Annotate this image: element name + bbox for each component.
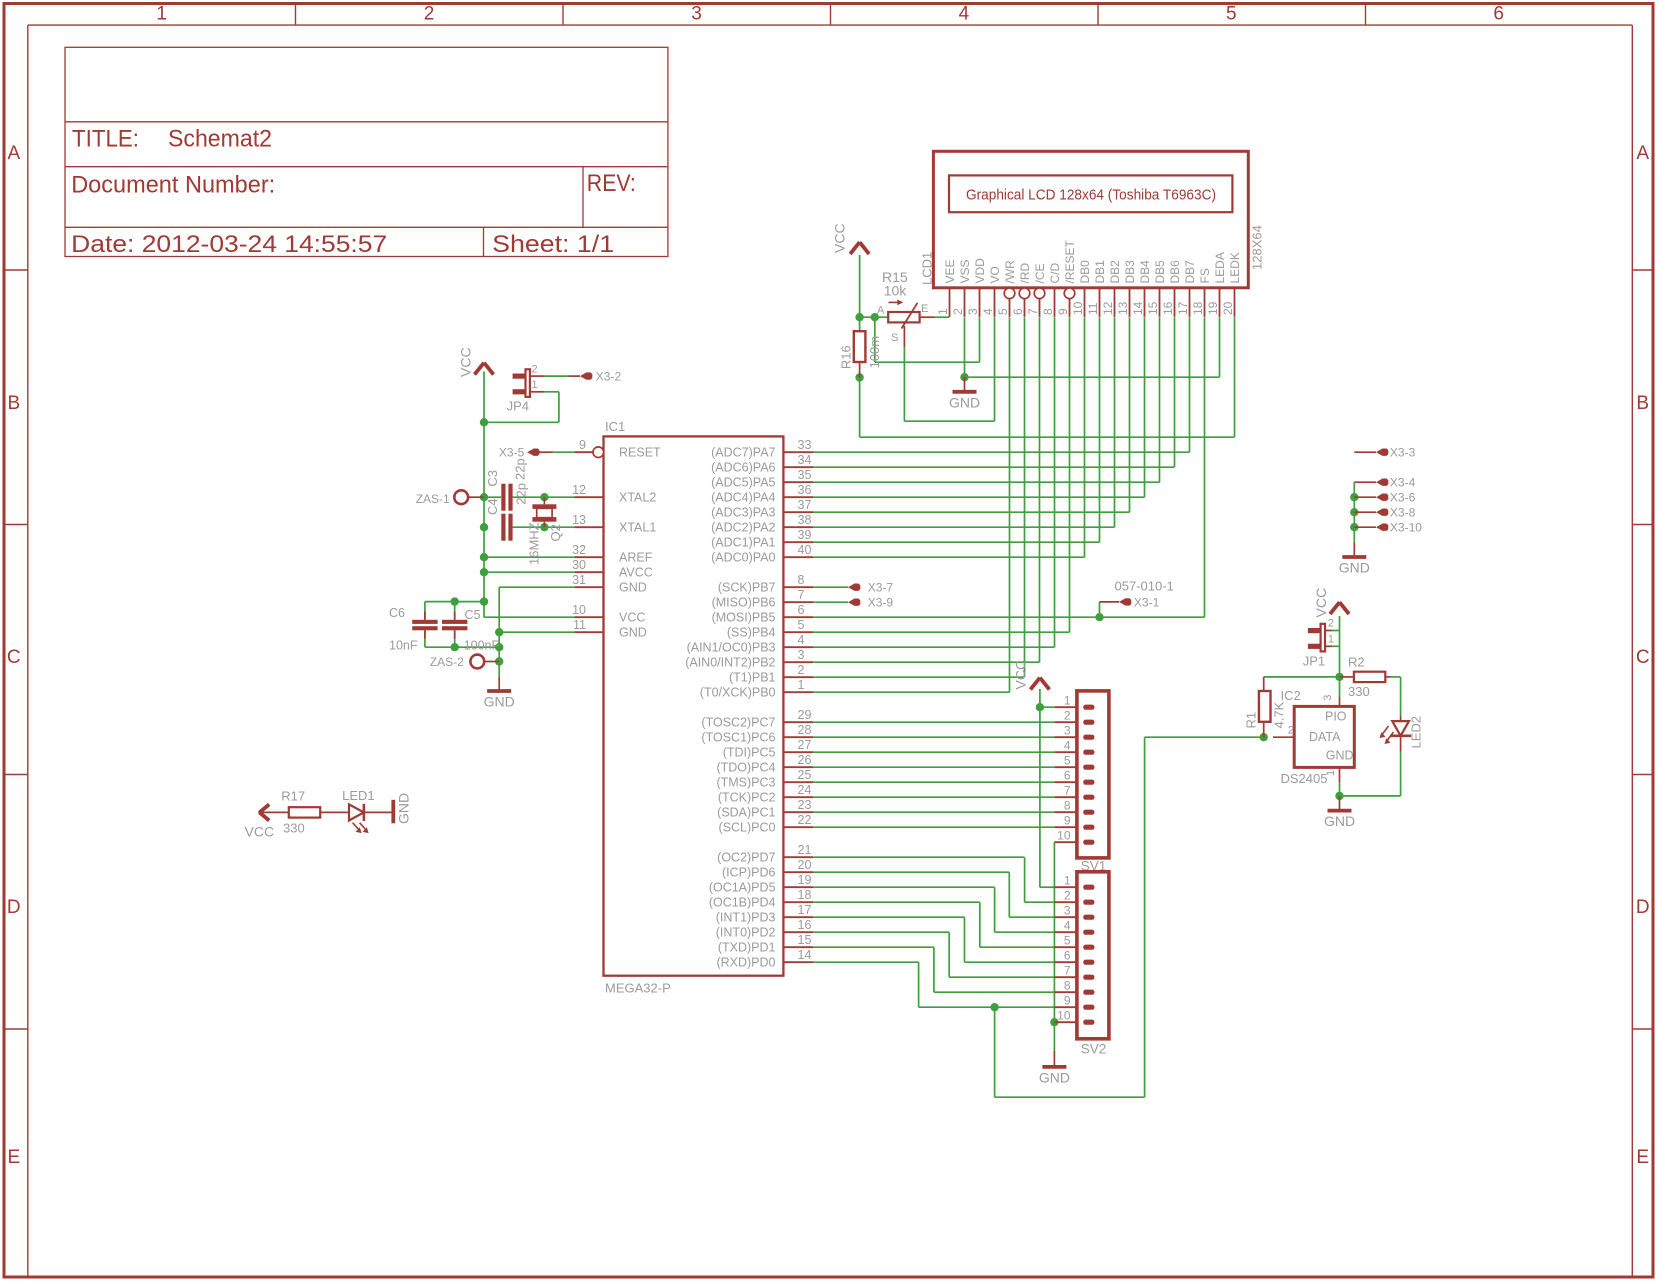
svg-text:VCC: VCC bbox=[458, 347, 474, 377]
svg-text:GND: GND bbox=[396, 793, 412, 824]
svg-text:DB6: DB6 bbox=[1168, 260, 1182, 284]
svg-text:34: 34 bbox=[798, 453, 812, 467]
svg-text:(ADC4)PA4: (ADC4)PA4 bbox=[711, 491, 775, 505]
svg-text:12: 12 bbox=[572, 483, 586, 497]
svg-text:R2: R2 bbox=[1348, 654, 1365, 669]
svg-text:FS: FS bbox=[1198, 268, 1212, 283]
svg-text:B: B bbox=[1636, 393, 1649, 414]
svg-text:GND: GND bbox=[1326, 748, 1354, 762]
svg-text:(ADC1)PA1: (ADC1)PA1 bbox=[711, 536, 775, 550]
svg-text:8: 8 bbox=[1064, 799, 1071, 813]
svg-text:C: C bbox=[1636, 647, 1650, 668]
svg-text:AREF: AREF bbox=[619, 551, 653, 565]
svg-text:14: 14 bbox=[798, 948, 812, 962]
svg-text:1: 1 bbox=[532, 379, 538, 391]
svg-text:(RXD)PD0: (RXD)PD0 bbox=[716, 956, 775, 970]
svg-text:4.7K: 4.7K bbox=[1272, 701, 1287, 728]
svg-text:GND: GND bbox=[1039, 1069, 1070, 1085]
svg-text:REV:: REV: bbox=[587, 170, 636, 197]
svg-text:11: 11 bbox=[1086, 302, 1100, 315]
svg-text:DB5: DB5 bbox=[1153, 260, 1167, 284]
svg-text:22p: 22p bbox=[514, 483, 529, 505]
svg-text:LEDA: LEDA bbox=[1213, 252, 1227, 283]
svg-text:R16: R16 bbox=[838, 345, 853, 369]
svg-text:GND: GND bbox=[949, 394, 980, 410]
svg-text:1: 1 bbox=[936, 308, 950, 315]
svg-text:36: 36 bbox=[798, 483, 812, 497]
svg-text:17: 17 bbox=[1176, 301, 1190, 315]
svg-text:JP4: JP4 bbox=[507, 398, 529, 413]
svg-text:ZAS-2: ZAS-2 bbox=[430, 655, 464, 669]
svg-text:/RD: /RD bbox=[1018, 263, 1032, 284]
svg-text:(TCK)PC2: (TCK)PC2 bbox=[718, 791, 776, 805]
svg-text:(SDA)PC1: (SDA)PC1 bbox=[717, 806, 775, 820]
svg-text:21: 21 bbox=[798, 843, 812, 857]
svg-text:7: 7 bbox=[798, 588, 805, 602]
svg-text:C4: C4 bbox=[485, 498, 500, 515]
svg-text:VCC: VCC bbox=[832, 223, 848, 253]
svg-text:TITLE:: TITLE: bbox=[72, 126, 139, 153]
svg-text:(INT0)PD2: (INT0)PD2 bbox=[716, 926, 776, 940]
svg-text:5: 5 bbox=[1064, 754, 1071, 768]
svg-text:MEGA32-P: MEGA32-P bbox=[605, 981, 671, 996]
svg-text:E: E bbox=[1636, 1147, 1649, 1168]
svg-text:2: 2 bbox=[1064, 889, 1071, 903]
svg-text:LCD1: LCD1 bbox=[920, 252, 935, 285]
svg-text:VCC: VCC bbox=[245, 824, 275, 840]
svg-text:4: 4 bbox=[1064, 739, 1071, 753]
svg-text:057-010-1: 057-010-1 bbox=[1115, 579, 1174, 594]
svg-text:Sheet: 1/1: Sheet: 1/1 bbox=[492, 231, 614, 258]
svg-text:(MOSI)PB5: (MOSI)PB5 bbox=[712, 611, 776, 625]
svg-text:3: 3 bbox=[1064, 904, 1071, 918]
svg-text:35: 35 bbox=[798, 468, 812, 482]
svg-text:20: 20 bbox=[798, 858, 812, 872]
svg-text:3: 3 bbox=[1322, 695, 1334, 701]
svg-text:S: S bbox=[891, 332, 898, 344]
svg-text:18: 18 bbox=[1191, 301, 1205, 315]
svg-text:VCC: VCC bbox=[619, 611, 645, 625]
svg-text:4: 4 bbox=[798, 633, 805, 647]
svg-text:VSS: VSS bbox=[958, 259, 972, 283]
svg-text:(ADC5)PA5: (ADC5)PA5 bbox=[711, 476, 775, 490]
svg-text:1: 1 bbox=[1064, 694, 1071, 708]
svg-text:9: 9 bbox=[1056, 308, 1070, 315]
svg-text:XTAL1: XTAL1 bbox=[619, 521, 656, 535]
svg-text:16: 16 bbox=[1161, 301, 1175, 315]
svg-text:39: 39 bbox=[798, 528, 812, 542]
svg-text:D: D bbox=[7, 897, 21, 918]
svg-text:AVCC: AVCC bbox=[619, 566, 653, 580]
svg-text:32: 32 bbox=[572, 543, 586, 557]
svg-text:(ADC7)PA7: (ADC7)PA7 bbox=[711, 446, 775, 460]
svg-text:3: 3 bbox=[966, 308, 980, 315]
svg-text:/RESET: /RESET bbox=[1063, 239, 1077, 283]
svg-text:/CE: /CE bbox=[1033, 263, 1047, 283]
svg-text:VO: VO bbox=[988, 266, 1002, 283]
svg-text:8: 8 bbox=[1041, 308, 1055, 315]
svg-text:X3-8: X3-8 bbox=[1390, 506, 1416, 520]
svg-text:9: 9 bbox=[1064, 994, 1071, 1008]
svg-text:1: 1 bbox=[156, 4, 167, 25]
svg-text:Graphical LCD 128x64 (Toshiba: Graphical LCD 128x64 (Toshiba T6963C) bbox=[966, 186, 1216, 203]
svg-text:(SCL)PC0: (SCL)PC0 bbox=[719, 821, 776, 835]
svg-text:R1: R1 bbox=[1243, 712, 1258, 729]
svg-text:(OC1B)PD4: (OC1B)PD4 bbox=[709, 896, 776, 910]
svg-text:DB2: DB2 bbox=[1108, 260, 1122, 284]
svg-text:GND: GND bbox=[1324, 813, 1355, 829]
svg-text:X3-6: X3-6 bbox=[1390, 491, 1416, 505]
svg-text:6: 6 bbox=[1064, 769, 1071, 783]
svg-text:100nF: 100nF bbox=[464, 638, 500, 652]
svg-text:(INT1)PD3: (INT1)PD3 bbox=[716, 911, 776, 925]
svg-text:Q2: Q2 bbox=[548, 524, 563, 541]
svg-text:VDD: VDD bbox=[973, 258, 987, 284]
svg-text:2: 2 bbox=[1288, 725, 1294, 737]
svg-text:5: 5 bbox=[1064, 934, 1071, 948]
svg-text:Schemat2: Schemat2 bbox=[168, 126, 272, 153]
svg-text:C: C bbox=[7, 647, 21, 668]
svg-text:DB3: DB3 bbox=[1123, 260, 1137, 284]
svg-text:6: 6 bbox=[1064, 949, 1071, 963]
svg-text:4: 4 bbox=[959, 4, 970, 25]
svg-text:5: 5 bbox=[798, 618, 805, 632]
svg-text:(TOSC2)PC7: (TOSC2)PC7 bbox=[701, 716, 775, 730]
svg-text:330: 330 bbox=[1348, 684, 1370, 699]
svg-text:23: 23 bbox=[798, 798, 812, 812]
svg-text:LEDK: LEDK bbox=[1228, 252, 1242, 283]
svg-text:X3-7: X3-7 bbox=[868, 581, 894, 595]
svg-text:E: E bbox=[7, 1147, 20, 1168]
svg-text:(AIN1/OC0)PB3: (AIN1/OC0)PB3 bbox=[687, 641, 776, 655]
svg-text:18: 18 bbox=[798, 888, 812, 902]
svg-text:DB0: DB0 bbox=[1078, 260, 1092, 284]
svg-text:X3-5: X3-5 bbox=[499, 446, 525, 460]
svg-text:16MHZ: 16MHZ bbox=[526, 522, 541, 565]
svg-text:33: 33 bbox=[798, 438, 812, 452]
svg-text:C6: C6 bbox=[389, 606, 405, 620]
svg-text:40: 40 bbox=[798, 543, 812, 557]
svg-text:16: 16 bbox=[798, 918, 812, 932]
svg-text:7: 7 bbox=[1026, 308, 1040, 315]
svg-text:10k: 10k bbox=[884, 283, 908, 299]
svg-text:/WR: /WR bbox=[1003, 260, 1017, 284]
svg-text:1: 1 bbox=[798, 678, 805, 692]
svg-text:17: 17 bbox=[798, 903, 812, 917]
svg-text:9: 9 bbox=[1064, 814, 1071, 828]
svg-text:2: 2 bbox=[798, 663, 805, 677]
svg-text:A: A bbox=[877, 304, 885, 316]
svg-text:DB4: DB4 bbox=[1138, 260, 1152, 284]
svg-text:2: 2 bbox=[532, 363, 538, 375]
svg-text:6: 6 bbox=[798, 603, 805, 617]
svg-text:VCC: VCC bbox=[1313, 588, 1329, 618]
svg-text:Document Number:: Document Number: bbox=[71, 172, 275, 199]
svg-text:R17: R17 bbox=[281, 788, 305, 803]
svg-text:24: 24 bbox=[798, 783, 812, 797]
svg-text:X3-9: X3-9 bbox=[868, 596, 894, 610]
svg-text:6: 6 bbox=[1011, 308, 1025, 315]
svg-text:1: 1 bbox=[1064, 874, 1071, 888]
svg-text:15: 15 bbox=[1146, 301, 1160, 315]
svg-text:DB1: DB1 bbox=[1093, 260, 1107, 284]
svg-text:X3-10: X3-10 bbox=[1390, 521, 1422, 535]
svg-text:(SS)PB4: (SS)PB4 bbox=[727, 626, 776, 640]
svg-text:(T1)PB1: (T1)PB1 bbox=[729, 671, 776, 685]
svg-text:DB7: DB7 bbox=[1183, 260, 1197, 284]
svg-text:3: 3 bbox=[798, 648, 805, 662]
svg-text:10: 10 bbox=[1057, 829, 1071, 843]
svg-text:D: D bbox=[1636, 897, 1650, 918]
svg-text:10nF: 10nF bbox=[389, 638, 418, 652]
svg-text:3: 3 bbox=[691, 4, 702, 25]
svg-text:(TOSC1)PC6: (TOSC1)PC6 bbox=[701, 731, 775, 745]
svg-text:A: A bbox=[7, 143, 20, 164]
svg-text:(MISO)PB6: (MISO)PB6 bbox=[712, 596, 776, 610]
svg-text:(ADC3)PA3: (ADC3)PA3 bbox=[711, 506, 775, 520]
svg-text:DS2405: DS2405 bbox=[1281, 771, 1328, 786]
svg-text:JP1: JP1 bbox=[1303, 653, 1325, 668]
svg-text:VEE: VEE bbox=[943, 259, 957, 283]
svg-text:22: 22 bbox=[798, 813, 812, 827]
svg-text:RESET: RESET bbox=[619, 446, 661, 460]
svg-text:2: 2 bbox=[951, 308, 965, 315]
svg-text:(ADC0)PA0: (ADC0)PA0 bbox=[711, 551, 775, 565]
svg-text:Date: 2012-03-24 14:55:57: Date: 2012-03-24 14:55:57 bbox=[71, 231, 387, 258]
svg-text:C/D: C/D bbox=[1048, 263, 1062, 284]
svg-text:LED1: LED1 bbox=[342, 788, 375, 803]
svg-text:10: 10 bbox=[572, 603, 586, 617]
svg-text:5: 5 bbox=[996, 308, 1010, 315]
svg-text:XTAL2: XTAL2 bbox=[619, 491, 656, 505]
svg-text:X3-1: X3-1 bbox=[1134, 596, 1160, 610]
svg-text:6: 6 bbox=[1493, 4, 1504, 25]
svg-text:29: 29 bbox=[798, 708, 812, 722]
svg-text:X3-4: X3-4 bbox=[1390, 476, 1416, 490]
svg-text:VCC: VCC bbox=[1013, 660, 1029, 690]
svg-text:37: 37 bbox=[798, 498, 812, 512]
svg-text:4: 4 bbox=[1064, 919, 1071, 933]
svg-text:9: 9 bbox=[579, 438, 586, 452]
svg-text:PIO: PIO bbox=[1325, 710, 1347, 724]
svg-text:C5: C5 bbox=[465, 608, 481, 622]
svg-text:26: 26 bbox=[798, 753, 812, 767]
svg-text:19: 19 bbox=[1206, 301, 1220, 315]
svg-text:(TXD)PD1: (TXD)PD1 bbox=[718, 941, 776, 955]
svg-text:B: B bbox=[7, 393, 20, 414]
svg-text:3: 3 bbox=[1064, 724, 1071, 738]
svg-text:(TMS)PC3: (TMS)PC3 bbox=[716, 776, 775, 790]
svg-text:GND: GND bbox=[1339, 560, 1370, 576]
svg-text:DATA: DATA bbox=[1309, 730, 1341, 744]
svg-text:13: 13 bbox=[1116, 301, 1130, 315]
svg-text:IC1: IC1 bbox=[605, 419, 625, 434]
svg-text:30: 30 bbox=[572, 558, 586, 572]
svg-text:28: 28 bbox=[798, 723, 812, 737]
svg-text:100m: 100m bbox=[867, 336, 882, 369]
svg-text:2: 2 bbox=[1328, 618, 1334, 630]
svg-text:13: 13 bbox=[572, 513, 586, 527]
svg-text:GND: GND bbox=[619, 581, 647, 595]
svg-text:(OC2)PD7: (OC2)PD7 bbox=[717, 851, 775, 865]
svg-text:15: 15 bbox=[798, 933, 812, 947]
svg-text:2: 2 bbox=[1064, 709, 1071, 723]
svg-text:X3-2: X3-2 bbox=[596, 370, 622, 384]
svg-text:LED2: LED2 bbox=[1409, 716, 1424, 749]
svg-text:11: 11 bbox=[573, 618, 586, 632]
svg-text:(T0/XCK)PB0: (T0/XCK)PB0 bbox=[700, 686, 776, 700]
svg-text:ZAS-1: ZAS-1 bbox=[416, 492, 450, 506]
svg-text:25: 25 bbox=[798, 768, 812, 782]
svg-text:19: 19 bbox=[798, 873, 812, 887]
svg-text:(SCK)PB7: (SCK)PB7 bbox=[718, 581, 776, 595]
svg-text:7: 7 bbox=[1064, 784, 1071, 798]
svg-text:X3-3: X3-3 bbox=[1390, 446, 1416, 460]
svg-text:14: 14 bbox=[1131, 301, 1145, 315]
svg-text:22p: 22p bbox=[513, 458, 528, 480]
svg-text:8: 8 bbox=[1064, 979, 1071, 993]
svg-text:(ADC6)PA6: (ADC6)PA6 bbox=[711, 461, 775, 475]
svg-text:A: A bbox=[1636, 143, 1649, 164]
svg-text:330: 330 bbox=[283, 821, 305, 836]
svg-text:1: 1 bbox=[1328, 634, 1334, 646]
svg-text:IC2: IC2 bbox=[1281, 688, 1301, 703]
svg-text:(ADC2)PA2: (ADC2)PA2 bbox=[711, 521, 775, 535]
svg-text:10: 10 bbox=[1057, 1009, 1071, 1023]
svg-text:2: 2 bbox=[424, 4, 435, 25]
svg-text:4: 4 bbox=[981, 308, 995, 315]
svg-text:(TDO)PC4: (TDO)PC4 bbox=[716, 761, 775, 775]
svg-text:27: 27 bbox=[798, 738, 812, 752]
svg-text:C3: C3 bbox=[485, 470, 500, 487]
svg-text:38: 38 bbox=[798, 513, 812, 527]
svg-text:(AIN0/INT2)PB2: (AIN0/INT2)PB2 bbox=[685, 656, 775, 670]
svg-text:128X64: 128X64 bbox=[1250, 225, 1265, 270]
svg-text:(ICP)PD6: (ICP)PD6 bbox=[722, 866, 776, 880]
svg-text:(TDI)PC5: (TDI)PC5 bbox=[723, 746, 776, 760]
svg-text:20: 20 bbox=[1221, 301, 1235, 315]
svg-text:SV2: SV2 bbox=[1081, 1042, 1107, 1057]
svg-text:10: 10 bbox=[1071, 301, 1085, 315]
svg-text:7: 7 bbox=[1064, 964, 1071, 978]
svg-text:GND: GND bbox=[484, 694, 515, 710]
svg-text:5: 5 bbox=[1226, 4, 1237, 25]
svg-text:E: E bbox=[921, 303, 928, 315]
svg-text:(OC1A)PD5: (OC1A)PD5 bbox=[709, 881, 776, 895]
svg-text:GND: GND bbox=[619, 626, 647, 640]
svg-text:12: 12 bbox=[1101, 301, 1115, 315]
svg-text:8: 8 bbox=[798, 573, 805, 587]
svg-text:31: 31 bbox=[572, 573, 586, 587]
